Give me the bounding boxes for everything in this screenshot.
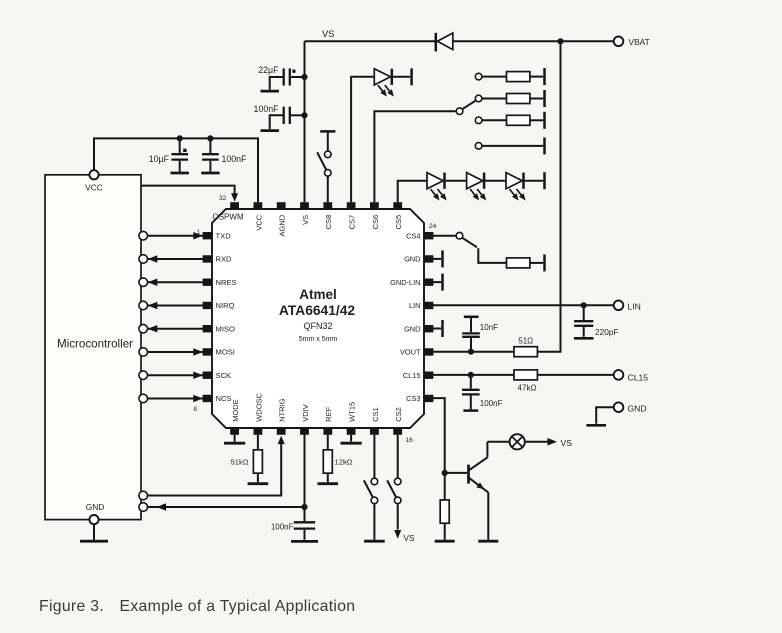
svg-text:CS8: CS8 bbox=[324, 215, 333, 230]
wire GND terminal bbox=[596, 407, 614, 424]
ground microcontroller bbox=[80, 540, 108, 543]
node connector circle row 2 bbox=[475, 95, 482, 102]
chip pin stubs bottom bbox=[230, 428, 239, 435]
wire CS5 up to LED chain bbox=[398, 181, 427, 203]
node GND bar bbox=[441, 320, 444, 337]
ground WT15 bbox=[350, 435, 352, 442]
LED D4 bbox=[467, 173, 483, 189]
svg-text:VS: VS bbox=[301, 215, 310, 225]
capacitor 100nF (VCC) bbox=[209, 138, 211, 153]
wire base bbox=[445, 472, 468, 474]
node junction VS/22uF bbox=[301, 74, 307, 80]
capacitor 10uF (VCC) bbox=[179, 138, 181, 153]
svg-text:MODE: MODE bbox=[231, 399, 240, 422]
node junction VDIV/C100nF bbox=[301, 504, 307, 510]
svg-text:16: 16 bbox=[406, 437, 414, 444]
ground terminal symbol bbox=[586, 424, 606, 427]
svg-text:QFN32: QFN32 bbox=[303, 321, 332, 331]
wire CS6 to switch S2 bbox=[374, 111, 456, 202]
ground 10uF bbox=[171, 172, 189, 175]
svg-text:1: 1 bbox=[197, 229, 201, 236]
diode D1 reverse protection bbox=[435, 33, 438, 52]
svg-text:100nF: 100nF bbox=[480, 399, 503, 408]
svg-text:NTRIG: NTRIG bbox=[278, 398, 287, 421]
svg-text:100nF: 100nF bbox=[222, 154, 248, 164]
svg-text:5mm x 5mm: 5mm x 5mm bbox=[299, 336, 338, 343]
svg-text:8: 8 bbox=[194, 406, 198, 413]
svg-text:VDIV: VDIV bbox=[301, 404, 310, 422]
svg-text:NRES: NRES bbox=[216, 278, 237, 287]
wire micro to OSPWM pin 32 bbox=[141, 186, 235, 194]
resistor row 2 bbox=[482, 98, 507, 100]
svg-text:VCC: VCC bbox=[254, 214, 263, 230]
node junction VCC/C 10uF bbox=[177, 135, 183, 141]
node junction LIN/220pF bbox=[581, 302, 587, 308]
wire VS rail horizontal bbox=[305, 40, 436, 42]
svg-text:REF: REF bbox=[324, 406, 333, 421]
transistor Q1 bbox=[467, 465, 470, 484]
node termination bar row 2 bbox=[543, 90, 546, 107]
svg-text:VS: VS bbox=[404, 534, 415, 543]
wire CL15 bbox=[433, 374, 614, 376]
wire RXD bbox=[148, 258, 203, 260]
resistor base pulldown bbox=[440, 500, 449, 523]
node junction VS/100nF bbox=[301, 112, 307, 118]
wire NCS bbox=[148, 397, 203, 399]
LED D5 bbox=[506, 173, 522, 189]
wire switch to resistor row bbox=[478, 248, 506, 263]
resistor row 1 bbox=[482, 76, 507, 78]
node junction VBAT bus bbox=[557, 38, 563, 44]
node terminal CL15 bbox=[614, 370, 624, 380]
capacitor 100nF (VDIV) bbox=[304, 507, 306, 521]
node junction VOUT/10nF bbox=[468, 349, 474, 355]
svg-text:100nF: 100nF bbox=[254, 104, 280, 114]
node VCC (microcontroller supply pin) bbox=[89, 170, 98, 179]
node micro pin MOSI bbox=[139, 348, 148, 357]
ground 100nF (VCC) bbox=[201, 172, 219, 175]
resistor CS4 row bbox=[507, 258, 530, 268]
svg-text:10μF: 10μF bbox=[149, 154, 170, 164]
svg-text:AGND: AGND bbox=[278, 214, 287, 236]
wire VS rail vertical to VS pin bbox=[304, 41, 306, 202]
svg-text:Example of a Typical Applicati: Example of a Typical Application bbox=[120, 598, 356, 615]
resistor 12k (REF) bbox=[327, 435, 329, 450]
op-chip U1 Atmel ATA6641/42 body bbox=[212, 209, 424, 428]
node connector circle row 3 bbox=[475, 117, 482, 124]
node terminal VBAT bbox=[614, 37, 624, 47]
svg-text:RXD: RXD bbox=[216, 255, 233, 264]
svg-text:Figure 3.: Figure 3. bbox=[39, 598, 104, 615]
resistor 51 ohm bbox=[514, 347, 537, 357]
wire micro GND down bbox=[93, 524, 95, 540]
wire collector to lamp bbox=[487, 441, 509, 443]
svg-text:GND: GND bbox=[404, 255, 420, 264]
chip pin stubs top bbox=[230, 202, 239, 209]
svg-text:CS4: CS4 bbox=[406, 231, 420, 240]
node termination bar CS4 row bbox=[543, 254, 546, 271]
svg-text:CS7: CS7 bbox=[348, 215, 357, 230]
node micro pin NCS bbox=[139, 394, 148, 403]
wire VCC net: micro VCC up, across, down to chip VCC pin bbox=[94, 138, 258, 202]
wire micro to NTRIG bbox=[139, 491, 148, 500]
LED D3 bbox=[427, 173, 443, 189]
resistor 51k (WDOSC) bbox=[257, 435, 259, 450]
ground CS1 switch bbox=[364, 540, 385, 543]
ground 22uF bbox=[261, 90, 279, 93]
node junction CL15/100nF bbox=[468, 372, 474, 378]
node junction VCC/C 100nF bbox=[207, 135, 213, 141]
node junction base bbox=[442, 470, 448, 476]
svg-text:WT15: WT15 bbox=[348, 402, 357, 422]
wire 51 ohm to VOUT pin bbox=[433, 351, 514, 353]
resistor row 3 bbox=[482, 119, 507, 121]
svg-text:VBAT: VBAT bbox=[629, 37, 650, 47]
svg-text:GND: GND bbox=[404, 324, 420, 333]
chip pin stubs left bbox=[203, 232, 212, 239]
svg-text:VOUT: VOUT bbox=[400, 348, 421, 357]
node micro pin MISO bbox=[139, 324, 148, 333]
wire GND pin termination bbox=[433, 258, 441, 260]
wire TXD bbox=[148, 235, 203, 237]
switch S3 at CS4 bbox=[456, 232, 463, 239]
svg-text:10nF: 10nF bbox=[480, 323, 498, 332]
switch S2 bbox=[456, 108, 463, 115]
svg-text:GND: GND bbox=[86, 502, 105, 512]
node micro pin NIRQ bbox=[139, 301, 148, 310]
svg-text:ATA6641/42: ATA6641/42 bbox=[279, 303, 356, 318]
svg-text:100nF: 100nF bbox=[271, 522, 294, 531]
svg-text:12kΩ: 12kΩ bbox=[335, 458, 353, 467]
ground 100nF VS bbox=[261, 129, 279, 132]
ground MODE bbox=[234, 435, 236, 442]
svg-text:CS3: CS3 bbox=[406, 394, 420, 403]
capacitor 220pF (LIN) bbox=[583, 305, 585, 320]
node connector circle row 4 bbox=[475, 143, 482, 150]
svg-text:Microcontroller: Microcontroller bbox=[57, 338, 133, 351]
svg-text:CS1: CS1 bbox=[371, 407, 380, 422]
lamp L1 bbox=[510, 434, 525, 449]
wire CS4 bbox=[433, 235, 456, 237]
node micro pin SCK bbox=[139, 371, 148, 380]
capacitor 100nF (CL15) bbox=[470, 375, 472, 389]
wire lamp to VS bbox=[525, 441, 549, 443]
svg-text:LIN: LIN bbox=[409, 301, 421, 310]
resistor 47k bbox=[514, 370, 537, 380]
svg-text:24: 24 bbox=[429, 223, 437, 230]
svg-text:51Ω: 51Ω bbox=[518, 336, 533, 345]
wire VBAT bus down and left to 51 ohm bbox=[537, 41, 560, 351]
svg-text:CL15: CL15 bbox=[628, 372, 649, 382]
wire VDIV to micro bbox=[139, 503, 148, 512]
wire MISO bbox=[148, 328, 203, 330]
svg-text:Atmel: Atmel bbox=[299, 287, 337, 302]
node termination bar 10nF bbox=[464, 316, 479, 319]
wire CS3 down bbox=[433, 398, 445, 500]
svg-text:MOSI: MOSI bbox=[216, 348, 235, 357]
node micro pin TXD bbox=[139, 231, 148, 240]
node GND bar bbox=[441, 274, 444, 291]
wire GND pin termination bbox=[433, 281, 441, 283]
wire diode to VBAT bbox=[453, 40, 614, 42]
node termination bar CS7 bbox=[410, 68, 413, 85]
capacitor 10nF (VOUT) bbox=[470, 338, 472, 352]
svg-text:220pF: 220pF bbox=[595, 327, 619, 337]
wire MOSI bbox=[148, 351, 203, 353]
microcontroller block bbox=[45, 175, 141, 520]
ground 51k bbox=[248, 482, 269, 485]
svg-text:OSPWM: OSPWM bbox=[213, 212, 244, 221]
svg-text:CS5: CS5 bbox=[394, 215, 403, 230]
svg-text:CS2: CS2 bbox=[394, 407, 403, 422]
svg-text:47kΩ: 47kΩ bbox=[518, 383, 537, 392]
svg-text:CS6: CS6 bbox=[371, 215, 380, 230]
node micro pin RXD bbox=[139, 255, 148, 264]
svg-text:VS: VS bbox=[561, 438, 573, 448]
wire GND pin termination bbox=[433, 328, 441, 330]
ground base resistor bbox=[435, 540, 455, 543]
node termination bar LED chain bbox=[543, 172, 546, 189]
wire LIN bbox=[433, 304, 614, 306]
svg-text:VS: VS bbox=[322, 28, 335, 39]
svg-text:NIRQ: NIRQ bbox=[216, 301, 235, 310]
ground 220pF bbox=[574, 337, 594, 340]
svg-text:NCS: NCS bbox=[216, 394, 232, 403]
node termination bar row 1 bbox=[543, 68, 546, 85]
svg-text:CL15: CL15 bbox=[403, 371, 421, 380]
wire NIRQ bbox=[148, 304, 203, 306]
node termination bar row 4 bbox=[543, 137, 546, 154]
capacitor 22uF (VS) bbox=[283, 68, 285, 85]
switch S1 at CS8 bbox=[327, 130, 330, 132]
svg-text:LIN: LIN bbox=[628, 301, 641, 311]
svg-text:WDOSC: WDOSC bbox=[254, 392, 263, 421]
ground 12k bbox=[318, 482, 339, 485]
svg-text:51kΩ: 51kΩ bbox=[231, 458, 249, 467]
chip pin stubs right bbox=[424, 232, 433, 239]
wire VDIV pin down bbox=[304, 435, 306, 507]
svg-text:TXD: TXD bbox=[216, 231, 232, 240]
svg-text:GND-LIN: GND-LIN bbox=[390, 278, 420, 287]
LED D2 at CS7 bbox=[351, 77, 374, 203]
ground 100nF VDIV bbox=[291, 540, 318, 543]
svg-text:22μF: 22μF bbox=[258, 65, 279, 75]
switch S4 at CS1 bbox=[373, 435, 375, 478]
ground emitter bbox=[478, 540, 498, 543]
svg-text:VCC: VCC bbox=[85, 183, 103, 193]
wire SCK bbox=[148, 374, 203, 376]
node GND bar bbox=[441, 250, 444, 267]
node terminal LIN bbox=[614, 301, 624, 311]
switch S5 at CS2 bbox=[397, 435, 399, 478]
wire NRES bbox=[148, 281, 203, 283]
wire row 4 bbox=[482, 145, 543, 147]
svg-text:GND: GND bbox=[628, 403, 647, 413]
node connector circle row 1 bbox=[475, 73, 482, 80]
capacitor 100nF (VS) bbox=[283, 107, 285, 124]
node micro pin NRES bbox=[139, 278, 148, 287]
svg-text:MISO: MISO bbox=[216, 324, 236, 333]
node GND (microcontroller ground pin) bbox=[89, 515, 98, 524]
svg-text:SCK: SCK bbox=[216, 371, 232, 380]
node termination bar row 3 bbox=[543, 112, 546, 129]
svg-text:32: 32 bbox=[219, 195, 227, 202]
node terminal GND bbox=[614, 402, 624, 412]
node termination bar 100nF CL15 bbox=[463, 409, 478, 412]
